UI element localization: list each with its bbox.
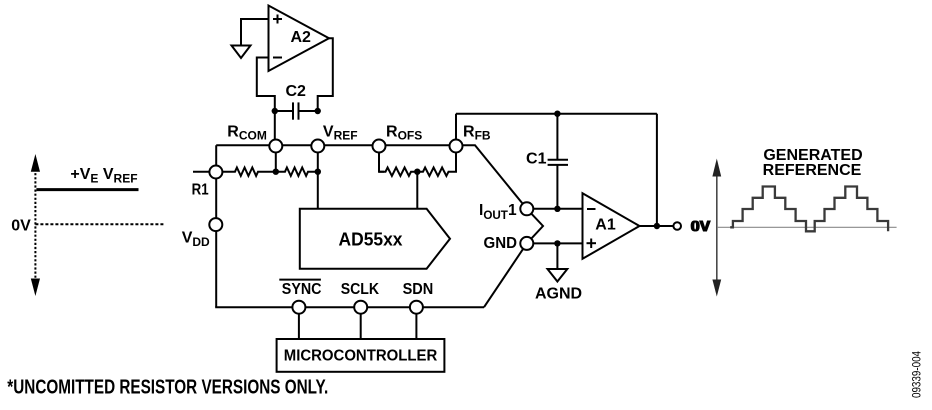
resistor RCOM-VREF — [276, 168, 318, 176]
wire ROFS down — [379, 145, 384, 171]
ground symbol at A2 — [232, 46, 251, 59]
wire resistor up to RFB — [450, 145, 456, 171]
junction dot C1 bottom — [554, 206, 560, 212]
svg-text:SDN: SDN — [403, 281, 434, 298]
pin circle IOUT1 — [520, 202, 533, 215]
svg-text:0V: 0V — [690, 219, 710, 236]
svg-text:REFERENCE: REFERENCE — [763, 162, 862, 179]
right axis — [716, 174, 718, 283]
waveform zero baseline — [718, 226, 897, 228]
junction dot resistor row VREF — [315, 169, 321, 175]
svg-text:09339-004: 09339-004 — [910, 351, 924, 398]
wire RCOM down to resistor row — [275, 145, 277, 171]
wire to AGND — [556, 243, 558, 269]
pin circle ROFS — [373, 140, 386, 153]
junction dot AGND — [554, 240, 560, 246]
A1 minus sign — [587, 208, 596, 210]
wire A2 + input to ground — [241, 19, 269, 46]
wire notch between IOUT1 and GND — [527, 209, 543, 244]
pin circle SYNC — [292, 301, 305, 314]
svg-text:R1: R1 — [192, 182, 209, 199]
capacitor C2 — [275, 102, 318, 119]
wire RFB stub and diagonal to IOUT1 — [456, 145, 527, 209]
svg-text:MICROCONTROLLER: MICROCONTROLLER — [284, 348, 438, 365]
wire chip outline left — [215, 145, 217, 307]
op-amp A2 — [269, 6, 330, 72]
VREF level solid line — [36, 188, 138, 191]
svg-text:C2: C2 — [285, 83, 306, 100]
svg-text:AD55xx: AD55xx — [339, 230, 403, 250]
svg-text:C1: C1 — [526, 151, 547, 168]
op-amp A1 — [583, 193, 640, 259]
wire A1 output — [640, 225, 674, 227]
pin circle SDN — [410, 301, 423, 314]
svg-text:*UNCOMITTED RESISTOR VERSIONS: *UNCOMITTED RESISTOR VERSIONS ONLY. — [7, 377, 328, 399]
feedback top wire RFB to A1 output — [456, 114, 657, 226]
resistor ROFS right — [417, 168, 450, 176]
microcontroller box — [277, 339, 445, 372]
op-amp A2 section — [241, 19, 333, 145]
svg-text:A1: A1 — [595, 217, 616, 234]
junction dot C2 right — [315, 108, 321, 114]
svg-text:SYNC: SYNC — [282, 281, 322, 298]
wire ROFS junction down to AD55xx — [416, 172, 418, 209]
A1 plus sign — [587, 242, 597, 244]
svg-text:AGND: AGND — [535, 286, 582, 303]
pin circle VDD — [209, 218, 222, 231]
wires pins to microcontroller — [299, 307, 417, 339]
junction dot resistor row RCOM — [273, 169, 279, 175]
output terminal circle — [673, 222, 681, 230]
svg-text:GND: GND — [484, 235, 518, 252]
svg-text:0V: 0V — [11, 217, 31, 234]
0V dotted line — [35, 223, 165, 225]
wire R1 open stub — [193, 171, 210, 173]
pin circle RCOM — [269, 140, 282, 153]
junction dot ROFS tap — [414, 169, 420, 175]
junction dot output — [654, 223, 660, 229]
A2 minus sign — [273, 57, 282, 59]
capacitor C1 — [548, 114, 568, 209]
wire GND to A1 noninverting input — [527, 242, 583, 244]
pin circle GND — [520, 237, 533, 250]
junction dot top wire — [554, 111, 560, 117]
svg-text:A2: A2 — [291, 29, 312, 46]
svg-text:SCLK: SCLK — [341, 281, 380, 298]
resistor R1-RCOM — [223, 168, 277, 176]
ground symbol AGND — [548, 269, 568, 282]
pin circle SCLK — [354, 301, 367, 314]
resistor ROFS left — [379, 168, 417, 176]
junction dot C2 left — [272, 108, 278, 114]
AD55xx block — [300, 209, 450, 269]
wire chip outline top — [216, 144, 456, 146]
wire diagonal GND to bus — [484, 243, 527, 307]
left axis arrows and dotted line — [34, 169, 36, 281]
wire A2 - input to RCOM node — [257, 58, 275, 146]
wire A2 output to VREF node — [318, 38, 333, 111]
wire chip outline bottom bus — [215, 306, 484, 308]
A2 plus sign — [273, 18, 282, 20]
pin circle R1 — [209, 166, 222, 179]
wire IOUT1 to A1 inverting input — [527, 208, 583, 210]
pin circle VREF — [311, 140, 324, 153]
pin circle RFB — [450, 140, 463, 153]
generated reference staircase waveform — [730, 187, 888, 232]
wire VREF down to AD55xx — [317, 145, 319, 209]
